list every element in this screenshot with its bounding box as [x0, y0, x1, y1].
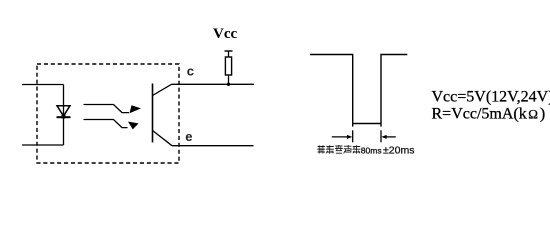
wire input bottom (LED cathode)	[22, 144, 64, 146]
svg-text:Vcc=5V(12V,24V): Vcc=5V(12V,24V)	[432, 89, 550, 106]
pulse width label (CJK glyph blocks)	[317, 145, 360, 154]
wire emitter	[172, 145, 254, 147]
light arrow top	[84, 105, 142, 114]
wire LED vertical	[63, 85, 65, 146]
wire input top (LED anode)	[22, 84, 64, 86]
svg-text:R=Vcc/5mA(kΩ): R=Vcc/5mA(kΩ)	[432, 106, 546, 123]
dimension arrow right	[381, 135, 395, 139]
svg-text:c: c	[187, 64, 194, 79]
pulse waveform	[310, 55, 407, 127]
optocoupler dashed outline U1	[37, 64, 179, 163]
svg-text:80ms: 80ms	[361, 145, 382, 155]
dimension arrow left	[332, 135, 353, 139]
svg-text:e: e	[185, 129, 192, 144]
junction dot	[227, 83, 230, 86]
resistor R	[225, 51, 233, 84]
LED D1	[57, 106, 71, 119]
svg-text:±20ms: ±20ms	[383, 145, 414, 157]
dimension tick right	[380, 130, 382, 142]
svg-text:Vcc: Vcc	[213, 26, 237, 42]
light arrow bottom	[84, 120, 139, 130]
dimension tick left	[352, 130, 354, 142]
wire collector	[172, 83, 255, 85]
phototransistor Q1	[153, 84, 173, 146]
